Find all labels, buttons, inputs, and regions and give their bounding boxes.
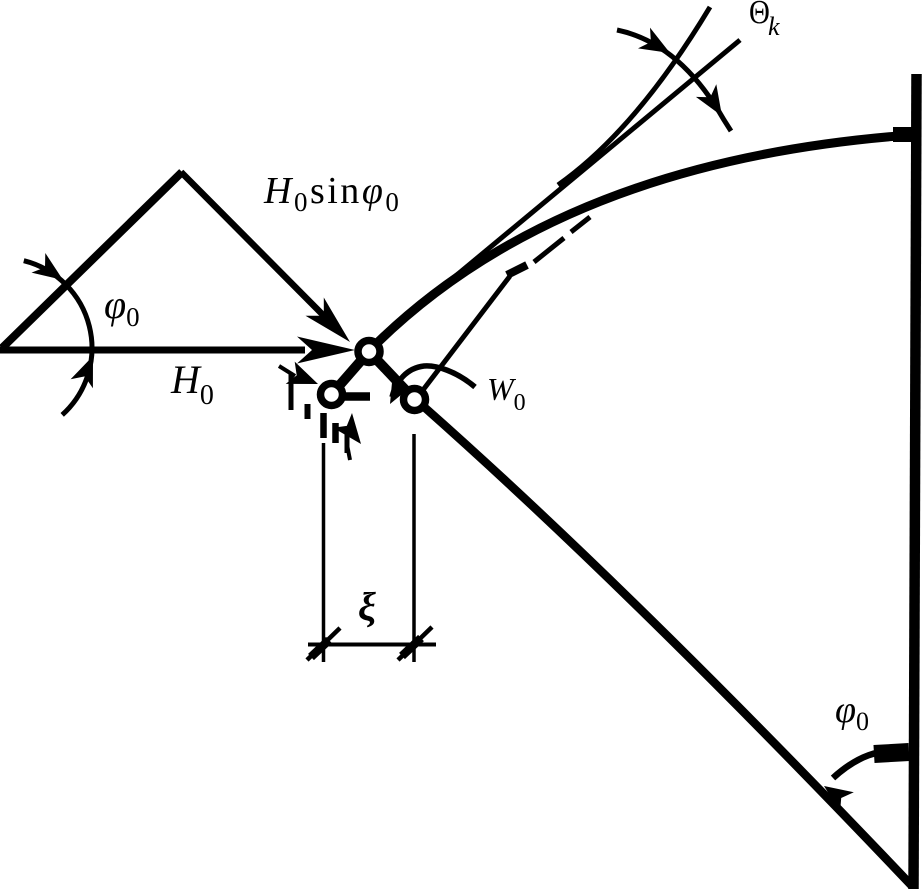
support arrow 2 tail — [348, 447, 351, 460]
angle arrow theta_k arrowhead 2 — [696, 84, 722, 116]
dimension line xi — [308, 643, 436, 647]
vector H0sin(phi0) arrowhead — [306, 298, 351, 343]
main node (pivot) — [358, 341, 380, 363]
rotation arc arrowhead (left end) — [390, 378, 410, 404]
dimension tick left — [307, 628, 340, 660]
svg-text:Θ: Θ — [749, 0, 770, 31]
vector H0 shaft — [0, 347, 305, 354]
svg-text:k: k — [768, 12, 780, 41]
wire: triangle left slope — [2, 172, 182, 348]
support hatch bar 4 — [332, 423, 339, 443]
support hatch bar 1 — [289, 373, 294, 410]
support arrow 1 tail — [279, 366, 295, 376]
support arrow 1 (points right at node) — [286, 362, 318, 384]
angle arc phi0 (bottom right) arrowhead — [824, 786, 854, 812]
angle arc phi0 (left vertex) — [24, 261, 92, 415]
angle arc phi0 lower arrowhead — [71, 356, 93, 388]
dimension extension line left — [322, 443, 326, 662]
angle arrow theta_k stroke — [617, 30, 731, 131]
label theta_k — [749, 0, 780, 41]
svg-text:H0sinφ0: H0sinφ0 — [263, 170, 401, 217]
angle arc phi0 upper arrowhead — [32, 253, 64, 280]
cable curve end blob at wall — [893, 127, 912, 142]
angle arrow theta_k arrowhead 1 — [638, 28, 670, 53]
link main node to W0 node — [369, 352, 415, 400]
vector H0 arrowhead — [297, 337, 355, 364]
tangent line B (from main node) — [370, 40, 740, 347]
support hatch bar 5 — [345, 428, 350, 453]
angle arc phi0 (bottom right) thick tail at wall — [874, 752, 909, 754]
slider bracket at support node — [344, 392, 370, 401]
support hatch bar 2 — [305, 404, 311, 419]
W0 node — [404, 389, 426, 411]
dimension extension line right — [412, 434, 416, 662]
wall (right vertical line) — [914, 74, 917, 889]
svg-text:ξ: ξ — [358, 584, 376, 629]
support hatch bar 3 — [320, 413, 327, 438]
diagonal rod (W0 node to bottom-right) — [423, 406, 913, 887]
rod line A solid lower part (from W0 node) — [423, 276, 510, 390]
dimension tick right — [398, 627, 432, 660]
angle arc phi0 (bottom right) — [833, 751, 908, 778]
support arrow 2 (points down-right) — [333, 413, 361, 444]
rod line A dashed part — [507, 265, 527, 275]
link main node to support node — [332, 352, 370, 395]
rotation arc over W0 node — [392, 366, 475, 397]
rod line A solid upper part — [558, 7, 710, 185]
support node — [321, 384, 343, 406]
cable curve (node to wall) — [369, 135, 911, 351]
vector H0sin(phi0) shaft — [181, 172, 330, 322]
